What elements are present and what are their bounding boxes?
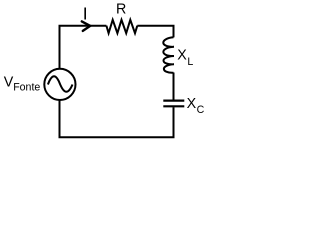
AC source circle: [44, 69, 75, 100]
svg-text:X: X: [177, 48, 187, 64]
wire top-left: from source top up and right to resistor: [60, 26, 107, 69]
svg-text:I: I: [83, 4, 88, 24]
sine wave inside source: [48, 76, 73, 92]
capacitor XC bottom plate: [163, 105, 184, 107]
capacitor XC top plate: [163, 99, 184, 101]
svg-text:Fonte: Fonte: [13, 81, 40, 93]
svg-text:C: C: [197, 104, 205, 116]
current arrow on top wire: [82, 21, 90, 31]
svg-text:L: L: [187, 56, 193, 68]
inductor XL coil (4 loops): [163, 37, 174, 72]
svg-text:X: X: [187, 96, 197, 112]
wire top-right: resistor to top-right corner and down to inductor: [137, 26, 173, 38]
resistor R zigzag: [106, 20, 137, 33]
wire: inductor to capacitor: [173, 73, 175, 100]
svg-text:R: R: [116, 2, 126, 18]
wire: capacitor down, bottom wire, up to source bottom: [60, 100, 174, 137]
